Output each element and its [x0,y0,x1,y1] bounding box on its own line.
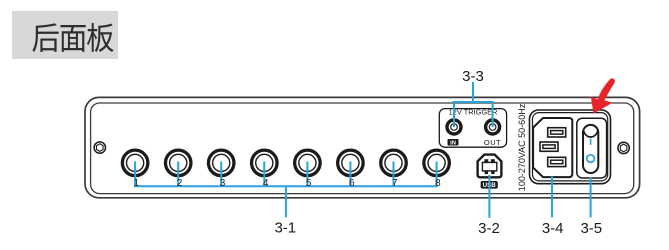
svg-text:2: 2 [177,178,183,189]
svg-text:12V TRIGGER: 12V TRIGGER [449,107,498,116]
svg-text:100-270VAC 50-60Hz: 100-270VAC 50-60Hz [517,103,527,191]
svg-text:1: 1 [134,178,140,189]
svg-text:3-5: 3-5 [580,220,602,237]
svg-text:IN: IN [450,140,456,146]
svg-text:3-4: 3-4 [542,220,564,237]
svg-text:3-1: 3-1 [274,220,296,237]
svg-text:OUT: OUT [484,138,501,147]
svg-text:6: 6 [349,178,355,189]
svg-text:5: 5 [306,178,312,189]
svg-text:3-3: 3-3 [462,68,484,85]
svg-text:3: 3 [220,178,226,189]
svg-text:7: 7 [392,178,398,189]
svg-text:8: 8 [435,178,441,189]
svg-text:3-2: 3-2 [478,220,500,237]
svg-text:4: 4 [263,178,269,189]
